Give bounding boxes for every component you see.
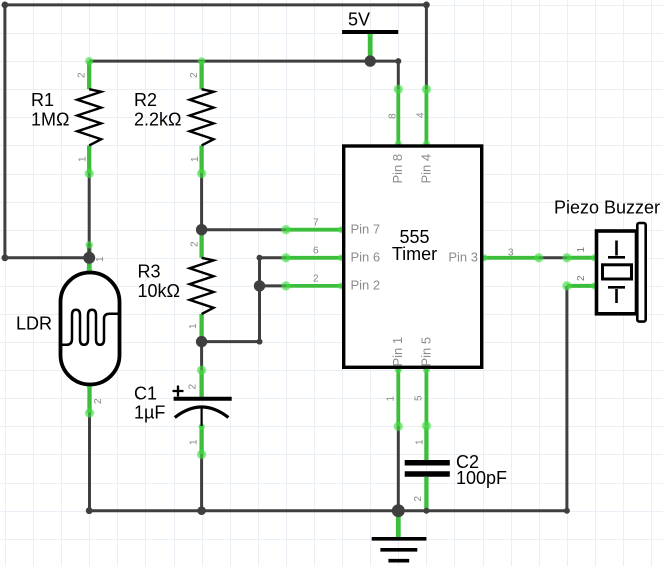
pin cap 555 pin7 box edge — [338, 226, 346, 234]
capacitor C2 pin 1 — [424, 426, 428, 460]
piezo buzzer side bar — [637, 223, 645, 322]
resistor R2 — [190, 89, 214, 145]
junction R3 bottom — [196, 336, 207, 347]
junction C1 bottom wire — [197, 506, 206, 515]
5V supply pin — [368, 32, 373, 61]
svg-text:1: 1 — [189, 439, 200, 445]
LDR body — [61, 273, 120, 385]
buzzer pin 1 lead — [567, 256, 597, 260]
svg-text:LDR: LDR — [16, 314, 52, 334]
pin cap buzzer pin1 at body — [591, 254, 599, 262]
wire buzzer pin2 down — [565, 286, 568, 511]
piezo buzzer inner top electrode — [608, 241, 625, 258]
wire end cap R1 bottom — [84, 168, 94, 178]
capacitor C1 pin 1 — [199, 426, 203, 455]
op 555 timer body U1 — [344, 146, 482, 367]
pin cap 555 pin3 box edge — [480, 254, 488, 262]
svg-text:2: 2 — [77, 72, 88, 78]
svg-text:Pin 6: Pin 6 — [351, 250, 381, 265]
svg-text:2: 2 — [190, 241, 201, 247]
wire end cap pin 6 — [281, 253, 291, 263]
wire LDR bottom — [88, 413, 91, 511]
wire left to LDR junction — [5, 256, 89, 259]
svg-text:2: 2 — [189, 72, 200, 78]
wire R3 bottom to C1 — [200, 342, 203, 371]
svg-text:1: 1 — [415, 439, 426, 445]
svg-text:7: 7 — [313, 218, 319, 229]
wire top-right vertical to pin 4 — [425, 5, 428, 89]
junction R2/R3/pin7 — [196, 224, 207, 235]
wire end cap pin 5 — [421, 421, 431, 431]
LDR pin 1 — [87, 258, 91, 273]
svg-text:3: 3 — [508, 248, 514, 259]
pin cap R1 top at rail — [85, 57, 94, 66]
svg-text:5V: 5V — [348, 10, 370, 30]
pin cap buzzer pin2 at body — [591, 282, 599, 290]
wire end cap R2 bottom — [196, 168, 206, 178]
capacitor C1 top plate — [174, 397, 232, 401]
capacitor C2 pin 2 — [424, 477, 428, 511]
LDR pin 1 upper part — [87, 244, 92, 273]
555 pin 3 lead — [482, 256, 539, 260]
wire end cap pin 4 — [421, 84, 431, 94]
wire corner down to pin 8 — [397, 61, 400, 89]
wire 5V rail y61 — [89, 60, 398, 63]
wire end cap pin 3 — [534, 253, 544, 263]
pin cap LDR pin2 at body — [86, 382, 93, 389]
resistor R1 pin 2 — [87, 61, 91, 89]
node top-left corner — [2, 2, 9, 9]
svg-text:1: 1 — [78, 156, 89, 162]
pin cap 555 pin2 box edge — [338, 282, 346, 290]
piezo buzzer body — [597, 231, 637, 314]
wire end cap C1 top — [196, 365, 206, 375]
resistor R3 pin 1 — [199, 314, 203, 342]
555 pin 5 lead — [424, 368, 428, 426]
node bottom-right corner — [564, 508, 570, 514]
node bottom-left corner — [86, 507, 93, 514]
resistor R3 — [190, 258, 214, 314]
resistor R1 pin 1 — [87, 145, 91, 173]
svg-text:Pin 4: Pin 4 — [419, 154, 434, 184]
pin cap 555 pin5 box edge — [422, 366, 430, 374]
pin cap 5V at bar — [367, 30, 374, 37]
pin cap 555 pin8 box edge — [394, 140, 402, 148]
node top-right corner — [423, 2, 430, 9]
svg-text:1: 1 — [576, 247, 587, 253]
555 pin 6 lead — [286, 256, 344, 260]
wire 555 pin1 down — [397, 426, 400, 510]
wire end cap pin 2 — [281, 281, 291, 291]
pin cap 555 pin4 box edge — [422, 140, 430, 148]
pin cap LDR pin1 end — [85, 241, 93, 249]
wire end cap C1 bottom — [196, 449, 206, 459]
capacitor C2 top plate — [405, 460, 450, 466]
svg-text:Piezo Buzzer: Piezo Buzzer — [554, 198, 660, 218]
resistor R3 pin 2 — [199, 230, 203, 258]
wire C1 bottom — [200, 455, 203, 511]
capacitor C1 plus sign — [173, 386, 184, 397]
wire bottom horizontal — [89, 509, 567, 512]
capacitor C1 curved plate — [175, 407, 229, 418]
555 pin 7 lead — [286, 228, 344, 232]
wire pin 3 to buzzer — [539, 256, 567, 259]
junction pin2 link — [254, 280, 265, 291]
svg-text:Pin 7: Pin 7 — [351, 222, 381, 237]
wire end cap pin 7 — [281, 225, 291, 235]
svg-text:Pin 1: Pin 1 — [390, 337, 405, 367]
wire left vertical — [3, 5, 6, 258]
555 pin 2 lead — [286, 284, 344, 288]
resistor R2 pin 1 — [199, 145, 203, 173]
node pin8 corner — [395, 58, 401, 64]
svg-text:1: 1 — [190, 156, 201, 162]
LDR track — [61, 310, 120, 345]
wire R3 bottom to link — [202, 340, 260, 343]
wire end cap buzzer pin 1 — [562, 253, 572, 263]
wire end cap LDR bottom — [84, 408, 94, 418]
wire to pin 2 — [260, 284, 286, 287]
resistor R2 pin 2 — [199, 61, 203, 89]
wire R1 bottom to LDR junction — [88, 174, 91, 258]
capacitor C2 bottom plate — [405, 471, 450, 477]
junction 5V rail — [365, 55, 376, 66]
wire to pin 7 — [202, 228, 286, 231]
pin cap C1 pin1 top — [198, 423, 205, 430]
node left bottom corner — [2, 254, 9, 261]
ground pin — [396, 511, 401, 539]
svg-text:8: 8 — [388, 113, 399, 119]
pin cap LDR pin1 at body — [86, 268, 93, 275]
svg-text:1: 1 — [95, 256, 106, 262]
555 pin 4 lead — [424, 89, 428, 146]
piezo buzzer inner bottom electrode — [608, 287, 625, 303]
node pin6 corner — [257, 255, 263, 261]
wire vertical pin6/pin2 link — [258, 258, 261, 342]
svg-text:2: 2 — [313, 274, 319, 285]
capacitor C1 stem — [201, 408, 203, 427]
svg-text:2: 2 — [413, 496, 424, 502]
wire end cap buzzer pin 2 — [562, 281, 572, 291]
resistor R1 — [77, 89, 101, 145]
buzzer pin 2 lead — [567, 284, 597, 288]
svg-text:Pin 8: Pin 8 — [390, 154, 405, 184]
svg-text:1: 1 — [386, 396, 397, 402]
5V supply symbol — [342, 30, 398, 34]
wire end cap pin 1 — [393, 421, 403, 431]
svg-text:2: 2 — [576, 275, 587, 281]
svg-text:2: 2 — [188, 384, 199, 390]
pin cap R2 top at rail — [197, 57, 206, 66]
junction ground — [392, 504, 405, 517]
capacitor C1 pin 2 — [199, 370, 203, 397]
svg-text:4: 4 — [416, 112, 427, 118]
svg-text:Pin 3: Pin 3 — [448, 250, 478, 265]
555 pin 1 lead — [396, 368, 400, 427]
pin cap R3 top at junction — [197, 225, 206, 234]
LDR pin 2 — [87, 385, 91, 414]
junction LDR top — [83, 252, 95, 264]
svg-text:5: 5 — [414, 395, 425, 401]
ground — [372, 539, 427, 561]
svg-text:2: 2 — [93, 398, 104, 404]
svg-text:Pin 5: Pin 5 — [419, 337, 434, 367]
svg-text:1: 1 — [188, 323, 199, 329]
node C2 bottom — [423, 508, 429, 514]
wire R2 bottom — [200, 174, 203, 230]
555 pin 8 lead — [396, 89, 400, 146]
svg-text:6: 6 — [313, 246, 319, 257]
wire top horizontal — [5, 3, 427, 6]
pin cap 555 pin6 box edge — [338, 254, 346, 262]
wire end cap pin 8 — [393, 84, 403, 94]
svg-text:Pin 2: Pin 2 — [351, 278, 381, 293]
pin cap 555 pin1 box edge — [394, 366, 402, 374]
piezo buzzer inner crystal — [603, 265, 632, 279]
node link bottom corner — [257, 339, 263, 345]
wire to pin 6 — [260, 256, 286, 259]
